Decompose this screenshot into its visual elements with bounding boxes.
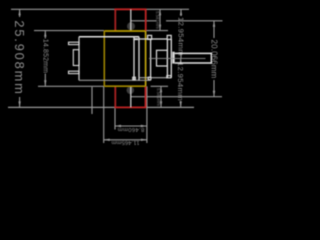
gearbox front plate D/E double line [170,39,172,78]
shaft end [210,53,212,64]
svg-text:5.581mm: 5.581mm [156,88,161,106]
extension line bottom (y=107.4) [8,106,194,108]
rear cap middle block [73,50,79,66]
dimension 14.852mm vertical line [44,31,46,42]
extension line hole-slot bottom (y=96.7) [131,96,222,98]
rear cap terminal tab top [69,42,80,44]
gearbox bottom joint D-E [167,76,171,78]
dimension text 20.066mm [210,40,219,79]
dimension 25.908mm vertical line [19,9,21,17]
gearbox bottom foot C [148,77,151,80]
extension line yellow-bottom level (y=86.3) left part [38,85,104,87]
extension line yellow-top level (y=30.6) left part [34,30,104,32]
motor body (can) right edge [138,37,140,81]
extension line hole-slot top (y=20.8) [131,20,157,22]
silkscreen yellow left edge [103,31,105,86]
pad 2 hole circle [127,86,135,94]
gearbox front vertical D [166,39,168,78]
dimension text 11.465mm (rotated 180) [111,139,139,145]
dimension text 25.908mm [12,19,27,97]
extension line yellow-bottom level (y=86.3) right part [151,85,168,87]
pad 1 hole slot line [130,9,132,31]
motor body (can) left edge [78,37,80,81]
dimension 20.066mm right (x=214) [213,21,215,38]
silkscreen yellow top edge [104,30,145,32]
small dimension 5.581mm bottom right (x=161) [160,86,162,107]
shaft bottom line [175,62,212,64]
svg-text:12.954mm: 12.954mm [177,17,186,56]
gearbox top boss D [167,35,171,39]
dimension 11.465mm horizontal (y=139.8) [104,139,147,141]
small dimension 5.581mm top (x=160) [159,9,161,30]
pad 1 hole circle [127,22,135,30]
svg-text:8.460mm: 8.460mm [117,126,144,132]
dimension 12.954mm lower right (x=180.7) [180,58,182,62]
gearbox top step box A-B [133,38,138,40]
extension line top (y=9.3) [11,8,189,10]
silkscreen yellow right edge [145,31,147,86]
svg-text:25.908mm: 25.908mm [12,20,27,95]
gearbox bearing box [157,50,168,66]
gearbox top edge [139,38,167,40]
dimension text 12.954mm upper [177,17,186,56]
rear cap terminal tab bottom [69,71,80,73]
gearbox top boss C [148,35,152,39]
gearbox bottom edge [139,77,167,79]
pad 2 hole slot line [130,87,132,108]
pad 2 bottom (red) [114,86,116,107]
dimension 12.954mm upper right (x=181) [180,9,182,16]
dimension 8.460mm horizontal (y=126) [115,125,147,127]
shaft center line [149,57,206,59]
dimension text 8.460mm (rotated 180) [117,126,144,132]
tiny text 5.581mm (bottom) [156,88,161,106]
gearbox bottom foot A [133,77,136,80]
svg-text:5.581mm: 5.581mm [155,11,160,29]
dimension text 14.852mm [42,39,50,74]
motor can/gearbox plate line A [133,37,135,81]
extension line yellow-top level (y=30.6) right part [146,30,168,32]
silkscreen yellow bottom edge [104,85,145,87]
pad 1 top (red) [114,9,116,31]
shaft collar [172,52,174,64]
dimension text 12.954mm lower [176,62,185,101]
svg-text:11.465mm: 11.465mm [111,139,139,145]
shaft top line [175,52,212,54]
motor body (can) bottom edge [79,79,151,81]
extension line vertical x=103.7 (yellow left) [103,86,105,143]
tiny text 5.581mm (top) [155,11,160,29]
svg-text:14.852mm: 14.852mm [42,39,49,73]
motor body (can) top edge [79,36,139,38]
gearbox plate C [150,39,152,78]
extension line vertical x=146.9 (pad right) [146,86,148,143]
svg-text:12.954mm: 12.954mm [176,62,185,101]
extension line vertical x=115 (pad left) [114,108,116,130]
extension line vertical x=92 [91,87,93,114]
